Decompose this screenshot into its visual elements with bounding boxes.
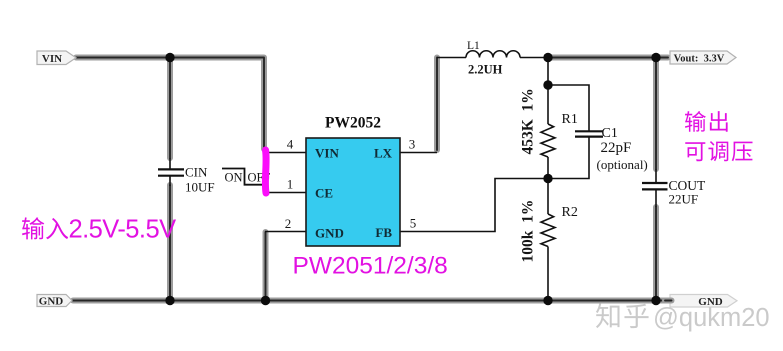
svg-text:GND: GND xyxy=(39,296,64,308)
svg-text:3: 3 xyxy=(409,137,416,152)
svg-text:CIN: CIN xyxy=(185,165,208,180)
svg-text:453K 1%: 453K 1% xyxy=(520,88,537,154)
svg-text:CE: CE xyxy=(315,186,333,201)
svg-text:2.2UH: 2.2UH xyxy=(468,63,503,77)
svg-text:LX: LX xyxy=(374,146,393,161)
svg-text:2: 2 xyxy=(285,216,292,231)
svg-text:5: 5 xyxy=(410,216,417,231)
svg-text:ON: ON xyxy=(225,171,243,185)
svg-text:Vout: 3.3V: Vout: 3.3V xyxy=(674,54,725,65)
svg-text:2.5V-5.5V: 2.5V-5.5V xyxy=(69,216,177,244)
svg-text:GND: GND xyxy=(315,226,344,241)
svg-text:R2: R2 xyxy=(562,205,578,220)
svg-text:FB: FB xyxy=(375,225,392,240)
svg-text:VIN: VIN xyxy=(315,146,339,161)
svg-text:4: 4 xyxy=(287,137,294,152)
svg-text:10UF: 10UF xyxy=(185,180,215,195)
svg-text:22UF: 22UF xyxy=(669,192,699,207)
svg-text:C1: C1 xyxy=(602,126,618,141)
svg-text:R1: R1 xyxy=(562,112,578,127)
svg-text:L1: L1 xyxy=(467,40,480,52)
svg-text:PW2052: PW2052 xyxy=(325,115,381,132)
svg-text:100k 1%: 100k 1% xyxy=(520,200,537,263)
svg-text:1: 1 xyxy=(287,177,294,192)
svg-text:(optional): (optional) xyxy=(597,157,648,172)
svg-text:PW2051/2/3/8: PW2051/2/3/8 xyxy=(293,253,448,280)
svg-text:VIN: VIN xyxy=(42,53,62,65)
svg-text:@qukm20: @qukm20 xyxy=(653,304,770,332)
svg-text:22pF: 22pF xyxy=(601,140,632,156)
